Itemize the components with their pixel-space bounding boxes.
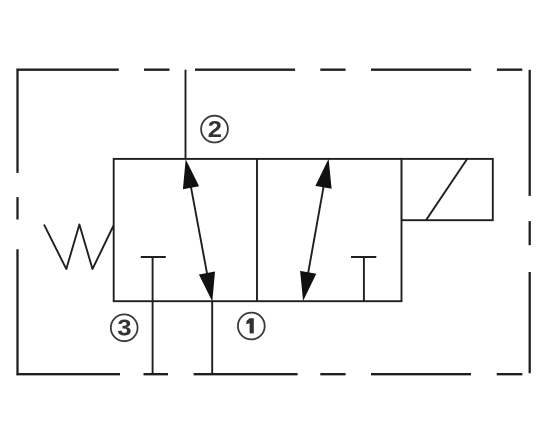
port label 2 (circled) [201,116,228,143]
blocked port tee cap (right square) [351,256,376,258]
spring return (zigzag, left side) [44,225,114,270]
svg-text:3: 3 [117,316,131,341]
boundary left (dashed cartridge envelope, left edge) [16,69,18,376]
wire: port 3 line (from blocked-port tee down to lower boundary) [152,257,154,374]
svg-text:2: 2 [208,117,222,142]
wire: port 2 line (from top boundary down to valve box) [185,70,187,159]
flow path arrow, right square (double-headed 2-1 passage) [300,159,332,301]
position divider (center line between the two squares) [256,159,258,301]
port label 1 (circled) [238,313,265,340]
flow path arrow, left square (double-headed 2-1 passage) [183,159,215,301]
blocked port tee cap (port 3, left square) [141,256,166,258]
wire: port 1 line (from valve box bottom to lower boundary) [211,301,213,374]
boundary top (dashed cartridge envelope, upper edge) [16,69,522,71]
valve body envelope (two-position, outer rectangle) [114,159,402,301]
blocked port tee (right square) vertical stub [363,257,365,301]
solenoid actuator box [402,159,493,220]
port label 3 (circled) [111,314,138,341]
boundary right (dashed cartridge envelope, right edge) [529,70,531,373]
boundary bottom (dashed cartridge envelope, lower edge) [16,373,522,375]
solenoid diagonal stroke [426,159,467,220]
